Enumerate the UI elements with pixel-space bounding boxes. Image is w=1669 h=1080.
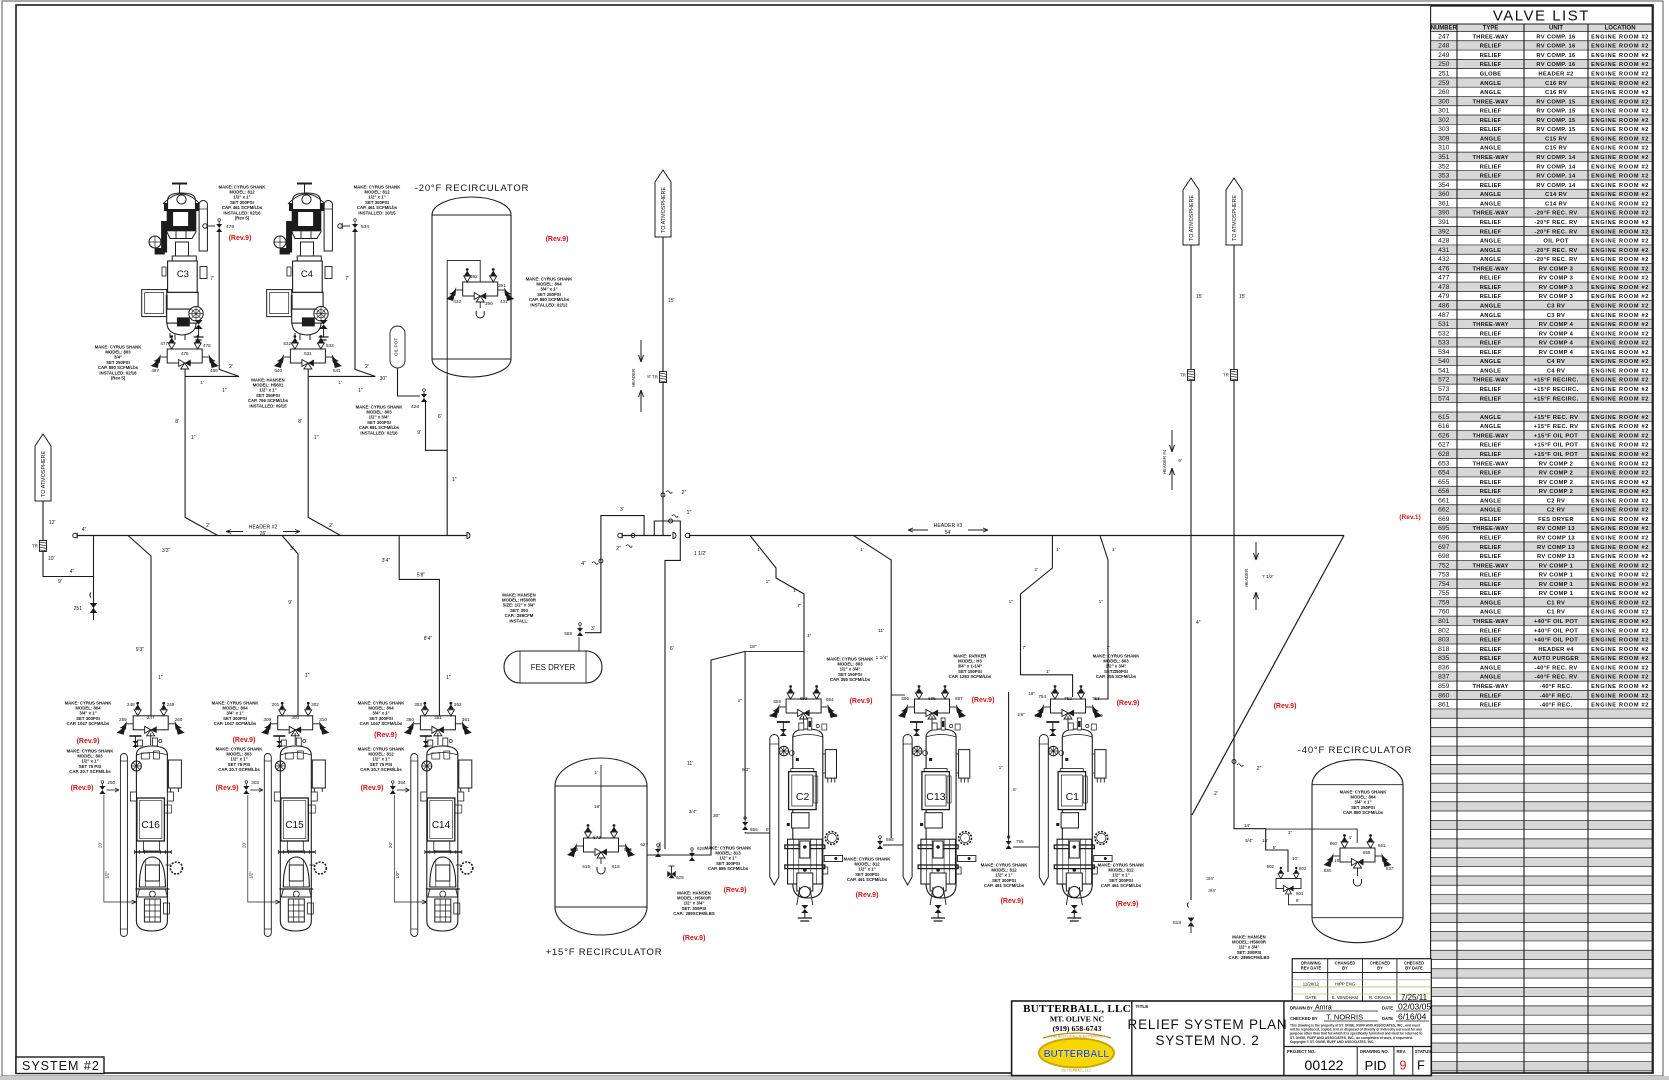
svg-text:ENGINE ROOM #2: ENGINE ROOM #2 bbox=[1591, 90, 1649, 96]
svg-text:836: 836 bbox=[1324, 868, 1332, 873]
svg-text:(Rev.9): (Rev.9) bbox=[1274, 703, 1297, 710]
C15 cluster spec text bbox=[212, 700, 260, 726]
svg-text:859: 859 bbox=[1438, 683, 1450, 690]
svg-text:ENGINE ROOM #2: ENGINE ROOM #2 bbox=[1591, 675, 1649, 681]
svg-text:C15 RV: C15 RV bbox=[1545, 146, 1567, 152]
svg-text:FES DRYER: FES DRYER bbox=[1538, 517, 1574, 523]
svg-text:653: 653 bbox=[800, 696, 808, 701]
svg-text:C14 RV: C14 RV bbox=[1545, 201, 1567, 207]
relief valve 627 bbox=[655, 844, 661, 857]
node C header 2 start fitting bbox=[73, 527, 87, 538]
oil pot bbox=[390, 326, 405, 368]
svg-text:RELIEF: RELIEF bbox=[1480, 647, 1502, 653]
svg-text:(Rev.9): (Rev.9) bbox=[71, 785, 94, 792]
svg-text:15': 15' bbox=[668, 298, 675, 304]
svg-text:573: 573 bbox=[570, 847, 578, 852]
svg-text:247: 247 bbox=[147, 715, 155, 720]
svg-text:C1: C1 bbox=[1066, 791, 1080, 803]
wire manifold horizontal bbox=[616, 533, 676, 553]
svg-text:ENGINE ROOM #2: ENGINE ROOM #2 bbox=[1591, 53, 1649, 59]
svg-text:C1 RV: C1 RV bbox=[1547, 610, 1565, 616]
svg-text:3'4": 3'4" bbox=[382, 558, 391, 564]
svg-text:-40°F REC.: -40°F REC. bbox=[1540, 684, 1573, 690]
wire C4 relief tie bbox=[308, 232, 375, 394]
C14 relief cluster 351 bbox=[404, 702, 472, 736]
C15 spec text lower bbox=[216, 746, 264, 772]
svg-text:754: 754 bbox=[1438, 581, 1450, 588]
svg-text:TO ATMOSPHERE: TO ATMOSPHERE bbox=[41, 451, 47, 497]
svg-text:C16 RV: C16 RV bbox=[1545, 81, 1567, 87]
svg-text:THREE-WAY: THREE-WAY bbox=[1472, 266, 1508, 272]
svg-text:303: 303 bbox=[1438, 126, 1450, 133]
-20F recirculator vessel bbox=[415, 183, 529, 377]
header 7.5ft label arrows bbox=[1244, 542, 1274, 610]
svg-text:(Rev.9): (Rev.9) bbox=[546, 236, 569, 243]
svg-text:1/2": 1/2" bbox=[248, 871, 253, 879]
svg-text:360: 360 bbox=[406, 717, 414, 722]
svg-text:6': 6' bbox=[670, 646, 674, 652]
svg-text:755: 755 bbox=[1438, 590, 1450, 597]
svg-text:695: 695 bbox=[1438, 525, 1450, 532]
svg-text:1": 1" bbox=[807, 633, 812, 639]
svg-text:1': 1' bbox=[757, 547, 761, 553]
svg-text:18': 18' bbox=[594, 804, 600, 810]
wire -20F recirc drain bbox=[447, 376, 457, 536]
svg-text:BY: BY bbox=[1377, 966, 1383, 971]
svg-text:1': 1' bbox=[200, 380, 204, 385]
svg-text:+40°F OIL POT: +40°F OIL POT bbox=[1534, 628, 1578, 634]
rev note bbox=[856, 892, 879, 899]
wire +15F oil pot piping bbox=[640, 651, 745, 880]
svg-text:ENGINE ROOM #2: ENGINE ROOM #2 bbox=[1591, 192, 1649, 198]
+15F hook bbox=[597, 858, 605, 874]
svg-text:C4: C4 bbox=[301, 269, 313, 280]
svg-text:574: 574 bbox=[1438, 395, 1450, 402]
svg-text:-40°F REC.: -40°F REC. bbox=[1540, 693, 1573, 699]
svg-text:ANGLE: ANGLE bbox=[1480, 136, 1501, 142]
svg-text:F: F bbox=[1417, 1059, 1425, 1073]
svg-text:CAP. 880 SCFM/Lbs: CAP. 880 SCFM/Lbs bbox=[1343, 810, 1384, 815]
relief valve 818 bbox=[1173, 918, 1194, 934]
svg-text:20': 20' bbox=[241, 842, 246, 848]
wire C3 drain to header bbox=[175, 369, 217, 536]
svg-text:ENGINE ROOM #2: ENGINE ROOM #2 bbox=[1591, 387, 1649, 393]
svg-text:THREE-WAY: THREE-WAY bbox=[1472, 433, 1508, 439]
svg-text:615: 615 bbox=[582, 864, 590, 869]
svg-text:-20°F REC. RV: -20°F REC. RV bbox=[1534, 248, 1577, 254]
svg-text:+15°F OIL POT: +15°F OIL POT bbox=[1534, 433, 1578, 439]
3/4 label stack1 bbox=[1206, 876, 1214, 882]
svg-text:ENGINE ROOM #2: ENGINE ROOM #2 bbox=[1591, 526, 1649, 532]
svg-text:ENGINE ROOM #2: ENGINE ROOM #2 bbox=[1591, 72, 1649, 78]
svg-text:SYSTEM #2: SYSTEM #2 bbox=[22, 1059, 100, 1073]
svg-text:752: 752 bbox=[1438, 562, 1450, 569]
svg-text:836: 836 bbox=[1438, 664, 1450, 671]
svg-text:250: 250 bbox=[1438, 61, 1450, 68]
svg-text:861: 861 bbox=[1378, 843, 1386, 848]
svg-text:ENGINE ROOM #2: ENGINE ROOM #2 bbox=[1591, 582, 1649, 588]
svg-text:RV COMP 3: RV COMP 3 bbox=[1539, 285, 1574, 291]
svg-text:2": 2" bbox=[616, 546, 621, 552]
rev note bbox=[233, 737, 256, 744]
svg-text:CAP. 461 SCFM/Lbs: CAP. 461 SCFM/Lbs bbox=[984, 883, 1025, 888]
rev note C13 bbox=[972, 697, 995, 704]
relief valve 303 bbox=[243, 780, 262, 794]
revision history table bbox=[1292, 959, 1431, 1002]
wire header #4 stack bbox=[1191, 245, 1203, 900]
wire C15 feed bbox=[282, 536, 310, 716]
C3 side spec text bbox=[95, 344, 143, 380]
svg-text:ENGINE ROOM #2: ENGINE ROOM #2 bbox=[1591, 81, 1649, 87]
wire C2 riser bbox=[750, 536, 812, 700]
svg-text:RV COMP 4: RV COMP 4 bbox=[1539, 331, 1574, 337]
rev note bbox=[683, 935, 706, 942]
svg-text:9: 9 bbox=[1400, 1059, 1407, 1073]
svg-text:C13: C13 bbox=[926, 791, 945, 803]
svg-text:RV COMP 13: RV COMP 13 bbox=[1537, 545, 1575, 551]
svg-text:CHECKED BY: CHECKED BY bbox=[1290, 1016, 1318, 1021]
svg-text:THREE-WAY: THREE-WAY bbox=[1472, 526, 1508, 532]
C3 drain valve cluster 476/477/478 bbox=[151, 335, 219, 373]
svg-text:THREE-WAY: THREE-WAY bbox=[1472, 684, 1508, 690]
rev note bbox=[546, 236, 569, 243]
svg-text:-20°F REC. RV: -20°F REC. RV bbox=[1534, 257, 1577, 263]
svg-text:302: 302 bbox=[1438, 117, 1450, 124]
svg-text:476: 476 bbox=[1438, 265, 1450, 272]
svg-text:HEADER #4: HEADER #4 bbox=[1538, 647, 1574, 653]
svg-text:1': 1' bbox=[338, 380, 342, 385]
svg-text:541: 541 bbox=[1438, 367, 1450, 374]
svg-text:ENGINE ROOM #2: ENGINE ROOM #2 bbox=[1591, 341, 1649, 347]
svg-text:11': 11' bbox=[878, 628, 884, 634]
svg-text:GLOBE: GLOBE bbox=[1480, 72, 1502, 78]
svg-text:4": 4" bbox=[1196, 620, 1201, 626]
header #3 label bbox=[908, 523, 988, 536]
svg-text:ENGINE ROOM #2: ENGINE ROOM #2 bbox=[1591, 563, 1649, 569]
svg-text:ENGINE ROOM #2: ENGINE ROOM #2 bbox=[1591, 508, 1649, 514]
svg-text:INSTALLED: 02/16: INSTALLED: 02/16 bbox=[360, 430, 398, 435]
svg-text:ENGINE ROOM #2: ENGINE ROOM #2 bbox=[1591, 118, 1649, 124]
svg-text:ENGINE ROOM #2: ENGINE ROOM #2 bbox=[1591, 684, 1649, 690]
svg-text:11': 11' bbox=[687, 761, 693, 767]
svg-text:655: 655 bbox=[773, 699, 781, 704]
svg-text:INSTALLED: 02/12: INSTALLED: 02/12 bbox=[530, 302, 568, 307]
svg-text:656: 656 bbox=[750, 827, 758, 832]
svg-text:ENGINE ROOM #2: ENGINE ROOM #2 bbox=[1591, 211, 1649, 217]
svg-text:(Rev.9): (Rev.9) bbox=[216, 785, 239, 792]
project number row bbox=[1284, 1047, 1431, 1076]
compressor C16 bbox=[120, 733, 182, 937]
svg-text:247: 247 bbox=[1438, 33, 1450, 40]
svg-text:ANGLE: ANGLE bbox=[1480, 600, 1501, 606]
steam trap TR (left vent) bbox=[32, 541, 47, 552]
svg-text:533: 533 bbox=[326, 343, 334, 348]
svg-text:CAP. 1047 SCFM/Lbs: CAP. 1047 SCFM/Lbs bbox=[360, 721, 403, 726]
rev note bbox=[1001, 898, 1024, 905]
svg-text:1": 1" bbox=[766, 579, 771, 585]
svg-text:INSTALL:: INSTALL: bbox=[509, 618, 529, 623]
svg-text:534: 534 bbox=[1438, 349, 1450, 356]
svg-text:861: 861 bbox=[1438, 702, 1450, 709]
svg-text:ENGINE ROOM #2: ENGINE ROOM #2 bbox=[1591, 331, 1649, 337]
svg-text:ENGINE ROOM #2: ENGINE ROOM #2 bbox=[1591, 489, 1649, 495]
svg-text:7': 7' bbox=[1022, 645, 1026, 651]
svg-text:C4 RV: C4 RV bbox=[1547, 368, 1565, 374]
header #4 label arrows bbox=[1162, 430, 1182, 490]
svg-text:C2 RV: C2 RV bbox=[1547, 508, 1565, 514]
svg-text:662: 662 bbox=[769, 713, 777, 718]
svg-text:9'3": 9'3" bbox=[136, 647, 145, 653]
svg-text:1": 1" bbox=[687, 510, 692, 516]
svg-text:ANGLE: ANGLE bbox=[1480, 313, 1501, 319]
svg-text:1": 1" bbox=[446, 675, 451, 681]
svg-text:3/4": 3/4" bbox=[689, 809, 698, 815]
svg-text:HEADER #4: HEADER #4 bbox=[1162, 449, 1167, 474]
svg-text:12': 12' bbox=[49, 520, 56, 526]
svg-text:HIPP ENG: HIPP ENG bbox=[1335, 981, 1356, 986]
svg-text:C16 RV: C16 RV bbox=[1545, 90, 1567, 96]
svg-text:(919) 658-6743: (919) 658-6743 bbox=[1053, 1024, 1102, 1033]
svg-text:260: 260 bbox=[175, 717, 183, 722]
svg-text:BY DATE: BY DATE bbox=[1405, 966, 1423, 971]
relief valve 755 bbox=[1006, 836, 1012, 849]
svg-text:572: 572 bbox=[593, 835, 601, 840]
svg-text:837: 837 bbox=[1438, 674, 1450, 681]
svg-text:CAP. 20.7 SCFM/Lbs: CAP. 20.7 SCFM/Lbs bbox=[69, 769, 111, 774]
2 inch fitting stack2 bbox=[1232, 760, 1262, 773]
svg-text:BUTTERBALL: BUTTERBALL bbox=[1044, 1049, 1110, 1060]
svg-text:2': 2' bbox=[365, 364, 369, 370]
svg-text:431: 431 bbox=[500, 299, 508, 304]
svg-text:THREE-WAY: THREE-WAY bbox=[1472, 461, 1508, 467]
svg-text:INSTALLED: 09/15: INSTALLED: 09/15 bbox=[249, 403, 287, 408]
svg-text:487: 487 bbox=[1438, 312, 1450, 319]
svg-text:487: 487 bbox=[151, 368, 159, 373]
-40F recirc spec text bbox=[1340, 789, 1388, 815]
compressor C15 bbox=[264, 733, 326, 937]
svg-text:ENGINE ROOM #2: ENGINE ROOM #2 bbox=[1591, 665, 1649, 671]
svg-text:DATE: DATE bbox=[1382, 1006, 1393, 1011]
svg-text:ENGINE ROOM #2: ENGINE ROOM #2 bbox=[1591, 517, 1649, 523]
svg-text:RV COMP. 15: RV COMP. 15 bbox=[1536, 109, 1576, 115]
svg-text:RELIEF: RELIEF bbox=[1480, 443, 1502, 449]
svg-text:RV COMP 13: RV COMP 13 bbox=[1537, 554, 1575, 560]
svg-text:+15°F OIL POT: +15°F OIL POT bbox=[1534, 443, 1578, 449]
svg-text:1": 1" bbox=[158, 675, 163, 681]
cyrus 813 spec text bbox=[705, 845, 753, 871]
svg-text:533: 533 bbox=[1438, 340, 1450, 347]
svg-text:C2 RV: C2 RV bbox=[1547, 498, 1565, 504]
C14 cluster spec text bbox=[358, 700, 406, 726]
svg-text:760: 760 bbox=[1034, 713, 1042, 718]
svg-text:PROJECT NO.: PROJECT NO. bbox=[1287, 1049, 1315, 1054]
svg-text:TO ATMOSPHERE: TO ATMOSPHERE bbox=[661, 187, 667, 233]
C2 relief cluster 653/654/655 bbox=[769, 685, 838, 719]
svg-text:THREE-WAY: THREE-WAY bbox=[1472, 155, 1508, 161]
svg-text:HEADER #3: HEADER #3 bbox=[934, 523, 963, 529]
svg-text:ENGINE ROOM #2: ENGINE ROOM #2 bbox=[1591, 656, 1649, 662]
svg-text:5'8": 5'8" bbox=[417, 573, 426, 579]
svg-text:ENGINE ROOM #2: ENGINE ROOM #2 bbox=[1591, 34, 1649, 40]
svg-text:9': 9' bbox=[58, 579, 62, 585]
-20F recirc valve spec text bbox=[526, 276, 574, 307]
svg-text:14': 14' bbox=[1262, 838, 1268, 843]
svg-text:431: 431 bbox=[1438, 247, 1450, 254]
svg-text:ENGINE ROOM #2: ENGINE ROOM #2 bbox=[1591, 146, 1649, 152]
svg-text:RV COMP. 16: RV COMP. 16 bbox=[1536, 53, 1576, 59]
header #2 label bbox=[226, 525, 300, 538]
-20F recirc internal piping bbox=[447, 260, 480, 376]
svg-text:428: 428 bbox=[411, 404, 419, 410]
C1 spec text lower bbox=[1098, 862, 1146, 888]
C16 cluster spec text bbox=[65, 700, 113, 726]
svg-text:309: 309 bbox=[264, 717, 272, 722]
svg-text:ENGINE ROOM #2: ENGINE ROOM #2 bbox=[1591, 452, 1649, 458]
svg-text:(Rev.9): (Rev.9) bbox=[77, 738, 100, 745]
C3 spec text bbox=[219, 184, 267, 220]
svg-text:REV DATE: REV DATE bbox=[1301, 966, 1322, 971]
svg-text:RELIEF: RELIEF bbox=[1480, 118, 1502, 124]
svg-text:ENGINE ROOM #2: ENGINE ROOM #2 bbox=[1591, 480, 1649, 486]
rev note right bbox=[1274, 703, 1297, 710]
svg-text:818: 818 bbox=[1173, 920, 1181, 926]
svg-text:TR: TR bbox=[1223, 373, 1230, 378]
rev note bbox=[374, 732, 397, 739]
svg-text:THREE-WAY: THREE-WAY bbox=[1472, 34, 1508, 40]
svg-text:RELIEF: RELIEF bbox=[1480, 489, 1502, 495]
svg-text:C16: C16 bbox=[141, 820, 160, 831]
svg-text:532: 532 bbox=[283, 341, 291, 346]
svg-text:18": 18" bbox=[749, 644, 756, 650]
svg-text:302: 302 bbox=[311, 702, 319, 707]
svg-text:572: 572 bbox=[1438, 377, 1450, 384]
header riser arrows center bbox=[631, 340, 651, 412]
svg-text:ENGINE ROOM #2: ENGINE ROOM #2 bbox=[1591, 304, 1649, 310]
svg-text:534: 534 bbox=[361, 224, 369, 230]
svg-text:354: 354 bbox=[398, 780, 406, 785]
svg-text:CAP.: 2895CFM/LBS: CAP.: 2895CFM/LBS bbox=[1229, 955, 1270, 960]
svg-text:(Rev 5): (Rev 5) bbox=[235, 216, 250, 221]
svg-text:C15: C15 bbox=[285, 820, 304, 831]
svg-text:540: 540 bbox=[274, 368, 282, 373]
svg-text:531: 531 bbox=[1438, 321, 1450, 328]
svg-text:7/25/11: 7/25/11 bbox=[1401, 993, 1428, 1002]
svg-text:RV COMP 1: RV COMP 1 bbox=[1539, 573, 1574, 579]
svg-text:ENGINE ROOM #2: ENGINE ROOM #2 bbox=[1591, 498, 1649, 504]
svg-text:ENGINE ROOM #2: ENGINE ROOM #2 bbox=[1591, 378, 1649, 384]
svg-text:ENGINE ROOM #2: ENGINE ROOM #2 bbox=[1591, 703, 1649, 709]
svg-text:352: 352 bbox=[454, 702, 462, 707]
svg-text:818: 818 bbox=[1438, 646, 1450, 653]
svg-text:1": 1" bbox=[999, 765, 1004, 771]
svg-text:1": 1" bbox=[1009, 599, 1014, 605]
compressor C4 bbox=[267, 184, 333, 341]
svg-text:TR: TR bbox=[32, 544, 39, 549]
title block bbox=[1012, 1001, 1432, 1076]
+15F recirc relief cluster 572/573/574 bbox=[567, 824, 635, 869]
drawn/checked block bbox=[1290, 1002, 1431, 1045]
svg-text:9': 9' bbox=[417, 430, 421, 436]
svg-text:HEADER #2: HEADER #2 bbox=[1538, 72, 1573, 78]
cyrus 803 spec text bbox=[356, 404, 404, 435]
C1 relief cluster 752/753/754 bbox=[1017, 685, 1103, 719]
svg-text:CAP.: 289SCFM/LBS: CAP.: 289SCFM/LBS bbox=[673, 911, 715, 916]
svg-text:-40°F REC.: -40°F REC. bbox=[1540, 703, 1573, 709]
svg-text:RELIEF: RELIEF bbox=[1480, 44, 1502, 50]
svg-text:-20°F REC. RV: -20°F REC. RV bbox=[1534, 220, 1577, 226]
svg-text:360: 360 bbox=[1438, 191, 1450, 198]
svg-text:2': 2' bbox=[1034, 567, 1038, 573]
svg-text:RV COMP. 16: RV COMP. 16 bbox=[1536, 44, 1576, 50]
svg-text:RELIEF: RELIEF bbox=[1480, 638, 1502, 644]
wire header #5 stack bbox=[1234, 245, 1298, 872]
wire C3 relief tie bbox=[185, 232, 239, 394]
svg-text:626: 626 bbox=[1438, 432, 1450, 439]
svg-text:CAP. 1047 SCFM/Lbs: CAP. 1047 SCFM/Lbs bbox=[214, 721, 257, 726]
rev note bbox=[1116, 901, 1139, 908]
svg-text:ENGINE ROOM #2: ENGINE ROOM #2 bbox=[1591, 368, 1649, 374]
svg-text:ENGINE ROOM #2: ENGINE ROOM #2 bbox=[1591, 285, 1649, 291]
svg-text:3/4': 3/4' bbox=[1208, 888, 1216, 894]
svg-text:RELIEF: RELIEF bbox=[1480, 628, 1502, 634]
svg-text:9': 9' bbox=[288, 600, 292, 606]
-40F hook bbox=[1354, 868, 1362, 886]
system label box bbox=[16, 1057, 104, 1074]
svg-text:-20°F RECIRCULATOR: -20°F RECIRCULATOR bbox=[415, 183, 529, 194]
svg-text:RV COMP 3: RV COMP 3 bbox=[1539, 294, 1574, 300]
svg-text:ENGINE ROOM #2: ENGINE ROOM #2 bbox=[1591, 109, 1649, 115]
svg-text:RV COMP. 14: RV COMP. 14 bbox=[1536, 155, 1576, 161]
hansen spec text -40F bbox=[1229, 934, 1270, 960]
svg-text:301: 301 bbox=[272, 702, 280, 707]
svg-text:392: 392 bbox=[470, 274, 478, 279]
svg-text:ENGINE ROOM #2: ENGINE ROOM #2 bbox=[1591, 471, 1649, 477]
svg-text:7 1/2': 7 1/2' bbox=[1262, 574, 1274, 580]
svg-text:T. NORRIS: T. NORRIS bbox=[1326, 1013, 1363, 1022]
svg-text:ENGINE ROOM #2: ENGINE ROOM #2 bbox=[1591, 220, 1649, 226]
svg-text:OIL POT: OIL POT bbox=[394, 338, 399, 356]
svg-text:ENGINE ROOM #2: ENGINE ROOM #2 bbox=[1591, 600, 1649, 606]
svg-text:2": 2" bbox=[1257, 766, 1262, 772]
svg-text:(Rev.9): (Rev.9) bbox=[724, 887, 747, 894]
svg-text:RELIEF: RELIEF bbox=[1480, 396, 1502, 402]
svg-text:(Rev.1): (Rev.1) bbox=[1399, 514, 1421, 521]
svg-text:390: 390 bbox=[1438, 210, 1450, 217]
svg-text:CAP. 1283 SCFM/Lbs: CAP. 1283 SCFM/Lbs bbox=[949, 674, 992, 679]
svg-text:4': 4' bbox=[1348, 835, 1352, 841]
svg-text:ENGINE ROOM #2: ENGINE ROOM #2 bbox=[1591, 647, 1649, 653]
svg-text:615: 615 bbox=[1438, 414, 1450, 421]
svg-text:C1 RV: C1 RV bbox=[1547, 600, 1565, 606]
svg-text:300: 300 bbox=[291, 715, 299, 720]
svg-text:INSTALLED: 10/15: INSTALLED: 10/15 bbox=[358, 210, 396, 215]
rev note bbox=[724, 887, 747, 894]
svg-text:ANGLE: ANGLE bbox=[1480, 424, 1501, 430]
svg-text:837: 837 bbox=[1386, 866, 1394, 871]
svg-text:1': 1' bbox=[1112, 547, 1116, 553]
svg-text:ENGINE ROOM #2: ENGINE ROOM #2 bbox=[1591, 554, 1649, 560]
svg-text:249: 249 bbox=[167, 702, 175, 707]
svg-text:HEADER #2: HEADER #2 bbox=[249, 525, 278, 531]
svg-text:STATUS: STATUS bbox=[1415, 1049, 1431, 1054]
svg-text:2'6": 2'6" bbox=[1017, 712, 1025, 717]
svg-text:1': 1' bbox=[1056, 547, 1060, 553]
wire C2 18in line bbox=[738, 644, 804, 833]
svg-text:532: 532 bbox=[1438, 330, 1450, 337]
svg-text:654: 654 bbox=[826, 697, 834, 702]
svg-text:353: 353 bbox=[414, 702, 422, 707]
svg-text:7': 7' bbox=[797, 603, 801, 609]
